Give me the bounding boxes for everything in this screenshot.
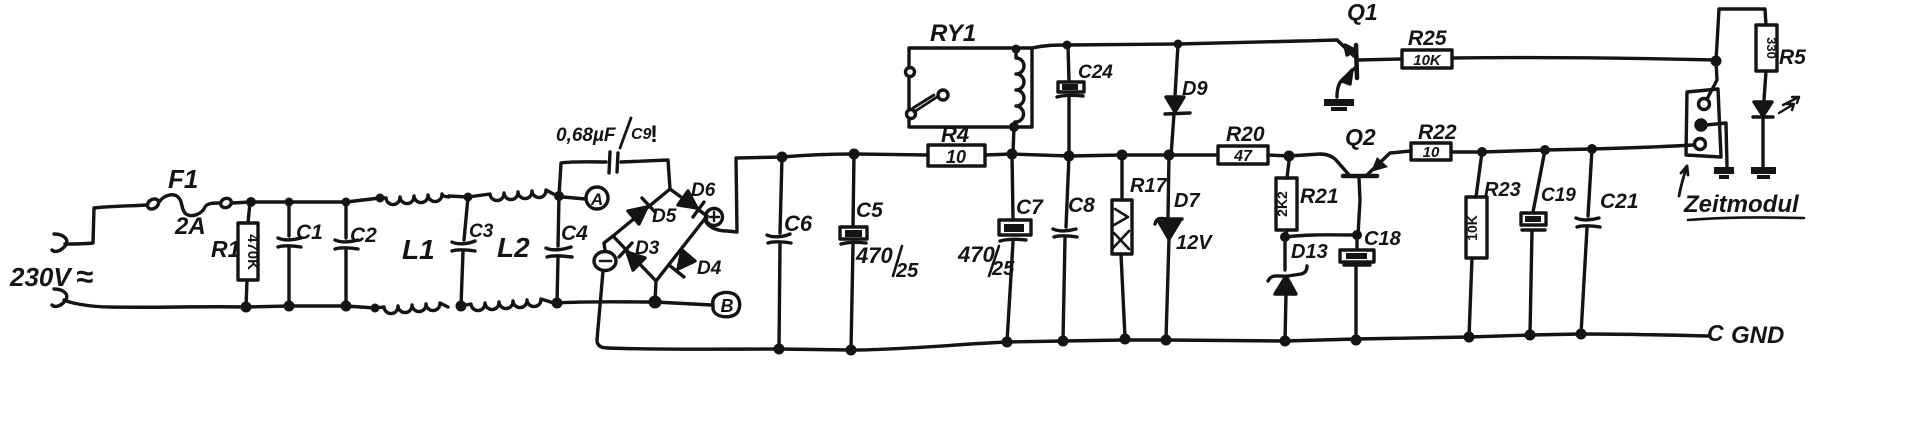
diode D3 (619, 243, 645, 270)
svg-text:10: 10 (1423, 144, 1440, 161)
capacitor C6 (767, 157, 791, 349)
capacitor C18 electrolytic (1340, 235, 1374, 339)
label R22 (1418, 121, 1457, 144)
svg-text:L2: L2 (497, 232, 530, 263)
svg-text:R25: R25 (1408, 27, 1447, 50)
inductor L2 top winding (468, 190, 559, 201)
node R17 bottom (1120, 334, 1131, 345)
label R25 (1408, 27, 1447, 50)
node coil top (1012, 45, 1021, 54)
resistor R5 (1756, 25, 1777, 100)
connector pin top (1699, 99, 1710, 110)
label D4 (697, 258, 722, 279)
svg-text:470: 470 (957, 242, 995, 267)
label D5 (652, 206, 677, 227)
svg-text:C6: C6 (784, 211, 813, 236)
label C19 (1541, 185, 1576, 206)
label Q1 (1347, 0, 1378, 25)
wire junction to connector (1707, 61, 1717, 99)
value 47 in R20 (1233, 148, 1253, 165)
node R23 top (1477, 147, 1487, 157)
label C21 (1600, 190, 1639, 213)
node C24 top (1063, 41, 1072, 50)
wire top rail L1 to C3 (449, 196, 468, 197)
slash of C5 value (893, 246, 902, 276)
node R1 top (246, 197, 256, 207)
capacitor C9 (609, 152, 618, 173)
wire input bottom rail (64, 300, 375, 308)
node C8 bottom (1058, 336, 1069, 347)
bridge edge left-bottom (613, 236, 656, 281)
ground under Q1 (1324, 99, 1354, 111)
label A (590, 190, 603, 209)
node C5 bottom (846, 345, 857, 356)
label D3 (635, 238, 660, 259)
diode D9 (1165, 44, 1190, 156)
svg-text:R21: R21 (1300, 185, 1339, 208)
label R17 (1130, 175, 1168, 197)
transistor Q1 (1337, 40, 1402, 97)
value 470/25 of C7 (957, 242, 1015, 280)
label C7 (1016, 196, 1044, 219)
slash of C7 value (989, 246, 999, 276)
label R21 (1300, 185, 1339, 208)
resistor R1 (238, 202, 258, 307)
resistor R20 (1218, 146, 1268, 164)
diode D5 (628, 198, 655, 224)
ground under connector (1714, 167, 1734, 179)
node R23 bottom (1464, 332, 1475, 343)
node C5 top (849, 149, 860, 160)
node C19 top (1540, 145, 1550, 155)
wire plus to positive rail (706, 157, 782, 232)
value 10 in R4 (946, 147, 966, 167)
svg-text:C19: C19 (1541, 185, 1576, 206)
relay top wire to C24 D9 Q1 (1032, 40, 1354, 56)
node C6 top (777, 152, 788, 163)
svg-text:2K2: 2K2 (1274, 191, 1290, 217)
LED arrows (1779, 97, 1799, 113)
value 10K in R25 (1413, 52, 1442, 69)
node rail at coil/C7 (1007, 149, 1018, 160)
wire R25 to right junction (1452, 58, 1716, 60)
label minus (600, 260, 611, 263)
svg-text:47: 47 (1233, 148, 1253, 165)
svg-text:C21: C21 (1600, 190, 1639, 213)
svg-text:D7: D7 (1174, 190, 1200, 212)
node C1 bottom (284, 301, 295, 312)
label R20 (1226, 123, 1265, 146)
svg-text:10K: 10K (1464, 215, 1480, 241)
ground bus left vertical from minus (597, 340, 608, 348)
label 230V (9, 259, 93, 294)
label R1 (211, 236, 240, 262)
node L1 top left (376, 194, 385, 203)
inductor L1 bottom winding (375, 303, 448, 314)
svg-text:R23: R23 (1484, 179, 1521, 201)
svg-text:Zeitmodul: Zeitmodul (1683, 191, 1800, 218)
node C3 top (464, 193, 473, 202)
svg-text:R17: R17 (1130, 175, 1168, 197)
resistor R21 (1276, 161, 1297, 237)
node B terminal (713, 293, 740, 317)
node C4 bottom (552, 298, 563, 309)
node D9 top (1174, 40, 1183, 49)
svg-text:10: 10 (946, 147, 966, 167)
svg-text:RY1: RY1 (930, 20, 976, 47)
svg-text:10K: 10K (1413, 52, 1442, 69)
label F1 (168, 164, 198, 194)
svg-text:C3: C3 (469, 221, 494, 242)
ground bus (608, 334, 1708, 350)
inductor L1 top winding (380, 194, 449, 205)
wire bridge bottom to B rail (655, 281, 656, 302)
label C3 (469, 221, 494, 242)
ground under LED (1751, 167, 1776, 179)
value 470K in R1 (244, 234, 261, 270)
wire coil to rail (1013, 127, 1014, 153)
node C1 top (285, 198, 294, 207)
bridge edge top-right (670, 189, 707, 216)
svg-text:12V: 12V (1176, 232, 1213, 254)
node rail at C24/C8 (1064, 151, 1075, 162)
svg-text:D4: D4 (697, 258, 722, 279)
arrow to Zeitmodul (1679, 166, 1688, 196)
capacitor C9 branch wire (559, 162, 606, 196)
label Zeitmodul (1683, 191, 1800, 218)
node R21 bottom (1280, 232, 1290, 242)
node minus terminal (594, 236, 616, 340)
svg-text:C: C (1707, 320, 1724, 346)
value 2K2 in R21 (1274, 191, 1290, 217)
label C18 (1364, 228, 1402, 250)
svg-text:C24: C24 (1078, 62, 1113, 83)
svg-text:F1: F1 (168, 164, 198, 194)
diode D4 (669, 250, 695, 277)
node coil bottom (1009, 122, 1019, 132)
svg-text:A: A (590, 190, 603, 209)
relay contact common (938, 90, 948, 100)
node L1 bottom left (371, 304, 380, 313)
value 10 in R22 (1423, 144, 1440, 161)
svg-text:D5: D5 (652, 206, 677, 227)
wire top right loop (1716, 9, 1766, 61)
label L1 (402, 234, 435, 265)
node rail at R17 (1117, 150, 1128, 161)
label 0,68uF/C9 ! (556, 121, 658, 148)
capacitor C7 electrolytic (999, 154, 1031, 342)
value 330 in R5 (1764, 37, 1779, 59)
resistor R23 (1466, 152, 1487, 337)
svg-text:L1: L1 (402, 234, 435, 265)
label R4 (941, 122, 969, 147)
svg-text:R5: R5 (1779, 46, 1806, 69)
relay RY1 box (909, 48, 1032, 127)
label C5 (856, 199, 883, 222)
bridge edge left-top (613, 189, 670, 236)
bridge edge bottom-right (656, 216, 707, 281)
svg-text:C1: C1 (296, 221, 323, 244)
wire C9 to bridge top (621, 160, 670, 189)
label C24 (1078, 62, 1113, 83)
svg-text:C2: C2 (350, 224, 377, 247)
svg-text:25: 25 (895, 260, 919, 282)
svg-text:D9: D9 (1182, 78, 1208, 100)
svg-text:C18: C18 (1364, 228, 1402, 250)
node R1 bottom (241, 302, 252, 313)
wire middle pin to ground (1706, 123, 1727, 166)
connector pin bottom (1695, 139, 1706, 150)
fuse F1 (146, 195, 251, 216)
svg-text:!: ! (650, 121, 658, 148)
relay lever (913, 95, 937, 112)
svg-text:R1: R1 (211, 236, 240, 262)
node bridge bottom (649, 296, 662, 309)
wire base node to Q2 (1289, 154, 1350, 176)
relay contact top (906, 68, 915, 77)
node A terminal (563, 187, 608, 209)
label L2 (497, 232, 530, 263)
label C1 (296, 221, 323, 244)
wire R21 bottom to Q2 collector (1285, 235, 1357, 237)
label RY1 (930, 20, 976, 47)
svg-text:B: B (721, 296, 734, 316)
capacitor C8 (1053, 156, 1077, 341)
value 470/25 of C5 (855, 243, 919, 282)
label C4 (561, 222, 588, 245)
svg-text:0,68µF: 0,68µF (556, 125, 617, 146)
svg-text:D6: D6 (691, 180, 716, 201)
capacitor C21 (1576, 149, 1600, 334)
resistor R25 (1402, 50, 1452, 68)
svg-text:C4: C4 (561, 222, 588, 245)
resistor R4 (928, 145, 985, 166)
capacitor C3 (452, 197, 475, 306)
node plus terminal (706, 209, 723, 226)
node rail at D9/D7 (1164, 150, 1175, 161)
node C3 bottom (456, 301, 467, 312)
svg-text:C7: C7 (1016, 196, 1044, 219)
wire R22 to rail right (1451, 145, 1694, 152)
connector Zeitmodul box (1686, 89, 1721, 157)
node C18 top (1352, 230, 1362, 240)
node C2 top (342, 198, 351, 207)
node C7 bottom (1002, 337, 1013, 348)
svg-text:C8: C8 (1068, 194, 1095, 217)
label R23 (1484, 179, 1521, 201)
svg-text:470K: 470K (244, 234, 261, 270)
positive rail C6 to R4 (782, 154, 928, 157)
value 12V (1176, 232, 1213, 254)
svg-text:≈: ≈ (76, 259, 93, 294)
node C4 top (554, 191, 564, 201)
wire B rail (557, 302, 712, 305)
label C2 (350, 224, 377, 247)
node C6 bottom (774, 344, 785, 355)
svg-text:C9: C9 (631, 126, 652, 143)
svg-text:330: 330 (1764, 37, 1779, 59)
label R5 (1779, 46, 1806, 69)
capacitor C2 (335, 202, 358, 306)
label GND (1707, 320, 1784, 349)
svg-text:Q2: Q2 (1345, 124, 1376, 150)
inductor L2 bottom winding (461, 299, 557, 311)
svg-text:R20: R20 (1226, 123, 1265, 146)
svg-text:230V: 230V (9, 262, 73, 292)
node Q2 base / R21 (1284, 151, 1295, 162)
label B (721, 296, 734, 316)
label C8 (1068, 194, 1095, 217)
capacitor C1 (278, 202, 301, 306)
node C18 bottom (1351, 335, 1362, 346)
node D7 bottom (1161, 335, 1172, 346)
svg-text:GND: GND (1731, 322, 1784, 349)
wire top rail fuse to L1 (251, 198, 380, 202)
capacitor C4 (546, 196, 572, 303)
capacitor C19 electrolytic (1521, 150, 1546, 334)
capacitor C24 electrolytic (1057, 45, 1084, 156)
svg-text:D3: D3 (635, 238, 660, 259)
connector pin middle (1696, 120, 1706, 130)
zener D13 (1268, 237, 1307, 341)
resistor R17 (1112, 155, 1132, 338)
value 10K in R23 (1464, 215, 1480, 241)
zener D7 (1155, 155, 1182, 339)
relay coil (1015, 49, 1024, 127)
transistor Q2 (1343, 151, 1411, 235)
label D7 (1174, 190, 1200, 212)
node C21 top (1587, 144, 1597, 154)
input terminal top (52, 234, 67, 251)
wire input top to fuse (65, 205, 147, 244)
svg-text:C5: C5 (856, 199, 883, 222)
relay contact bottom (907, 110, 916, 119)
wire R20 to Q2 base node (1268, 155, 1289, 156)
svg-text:2A: 2A (174, 213, 206, 240)
underline Zeitmodul (1688, 217, 1804, 220)
slash of C9 label (620, 118, 631, 148)
capacitor C5 electrolytic (840, 154, 867, 350)
label 2A (174, 213, 206, 240)
node C19 bottom (1525, 330, 1536, 341)
label D13 (1291, 241, 1328, 263)
node right junction (1711, 56, 1722, 67)
node C21 bottom (1576, 329, 1587, 340)
svg-text:R22: R22 (1418, 121, 1457, 144)
LED D (1753, 102, 1773, 167)
node C2 bottom (341, 301, 352, 312)
label Q2 (1345, 124, 1376, 150)
node D13 bottom (1280, 336, 1291, 347)
svg-text:D13: D13 (1291, 241, 1328, 263)
input terminal bottom (52, 289, 67, 306)
wire R4 to relay junction (985, 154, 1218, 156)
resistor R22 (1411, 143, 1451, 160)
svg-text:Q1: Q1 (1347, 0, 1378, 25)
label D9 (1182, 78, 1208, 100)
diode D6 (678, 191, 704, 217)
label C6 (784, 211, 813, 236)
label D6 (691, 180, 716, 201)
svg-text:470: 470 (855, 243, 893, 268)
